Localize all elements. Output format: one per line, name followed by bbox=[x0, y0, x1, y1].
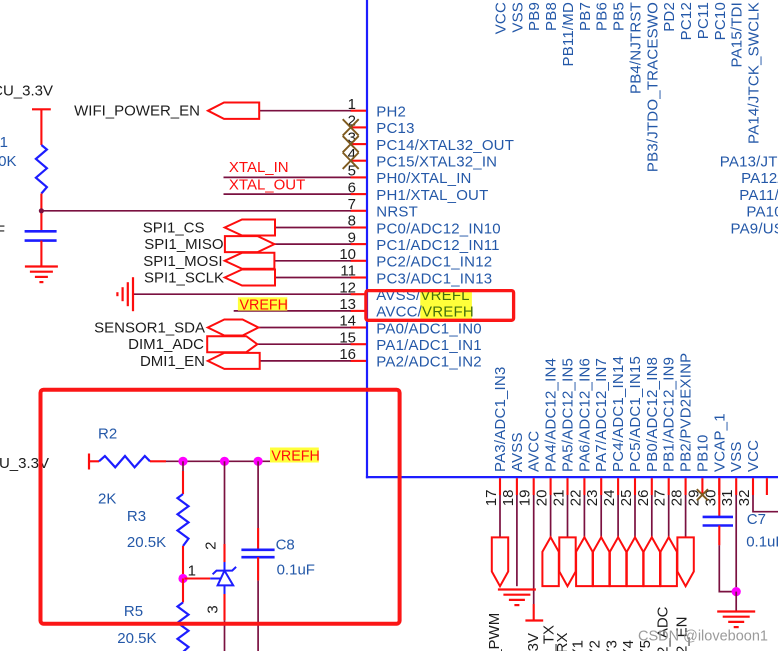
svg-text:R5: R5 bbox=[124, 603, 143, 620]
svg-text:SPI1_CS: SPI1_CS bbox=[143, 220, 205, 237]
svg-text:SPI1_SCLK: SPI1_SCLK bbox=[144, 270, 224, 287]
svg-text:AVCC: AVCC bbox=[526, 431, 543, 472]
svg-text:DMI1_EN: DMI1_EN bbox=[140, 353, 205, 370]
pin 24 stub bbox=[617, 478, 619, 495]
wire dot2 to diode bbox=[224, 461, 226, 544]
wire pin 17 to port bbox=[499, 495, 501, 537]
svg-text:PA1/ADC1_IN1: PA1/ADC1_IN1 bbox=[376, 337, 482, 354]
highlight box reference circuit bbox=[41, 390, 400, 624]
svg-text:AVCC/VREFH: AVCC/VREFH bbox=[376, 304, 474, 321]
lead R5 top bbox=[182, 579, 184, 603]
svg-text:PA12/: PA12/ bbox=[741, 170, 778, 187]
svg-text:23: 23 bbox=[584, 490, 601, 507]
wire SENSOR1_SDA to pin 14 bbox=[259, 327, 351, 329]
svg-text:KEY2: KEY2 bbox=[586, 640, 603, 651]
svg-text:R21: R21 bbox=[0, 134, 8, 151]
svg-text:19: 19 bbox=[517, 490, 534, 507]
pin 22 stub bbox=[583, 478, 585, 495]
svg-text:KEY3: KEY3 bbox=[603, 640, 620, 651]
pin 5 stub bbox=[351, 176, 367, 178]
pin 28 stub bbox=[685, 478, 687, 495]
svg-text:10K: 10K bbox=[0, 153, 17, 170]
svg-text:26: 26 bbox=[635, 490, 652, 507]
svg-text:PA14/JTCK_SWCLK: PA14/JTCK_SWCLK bbox=[746, 2, 763, 144]
wire dot1 to R3 bbox=[182, 461, 184, 471]
wire pin 23 to port bbox=[600, 495, 602, 537]
wire power to R21 bbox=[40, 109, 42, 145]
resistor R2 bbox=[99, 456, 150, 467]
wire SPI1_SCLK to pin 11 bbox=[275, 277, 351, 279]
svg-text:VCC: VCC bbox=[493, 2, 510, 34]
svg-text:2K: 2K bbox=[98, 491, 116, 508]
ground (pin 31 / C7) bbox=[717, 610, 755, 612]
lead C8 top bbox=[257, 528, 259, 550]
svg-text:C7: C7 bbox=[747, 511, 766, 528]
port D_TX (pin 20) bbox=[542, 537, 558, 586]
svg-text:20.5K: 20.5K bbox=[127, 534, 166, 551]
port SPI1_MOSI bbox=[225, 253, 275, 269]
ground (pin 18 AVSS) bbox=[498, 588, 536, 590]
no-connect X pin 29 bbox=[697, 489, 708, 500]
lead diode top (pin 2) bbox=[223, 544, 225, 562]
svg-text:PC4/ADC1_IN14: PC4/ADC1_IN14 bbox=[610, 356, 627, 472]
wire pin 25 to port bbox=[634, 495, 636, 537]
pin 14 stub bbox=[351, 326, 367, 328]
svg-text:PC1/ADC12_IN11: PC1/ADC12_IN11 bbox=[376, 237, 499, 254]
svg-text:PC10: PC10 bbox=[712, 2, 729, 40]
wire VREFH net bbox=[166, 460, 319, 462]
lead R3 bottom bbox=[182, 546, 184, 579]
svg-text:AVSS: AVSS bbox=[509, 432, 526, 472]
wire SPI1_CS to pin 8 bbox=[275, 227, 351, 229]
svg-text:PB2/PVD2EXINP: PB2/PVD2EXINP bbox=[678, 353, 695, 472]
svg-text:DIM1_ADC: DIM1_ADC bbox=[128, 336, 204, 353]
svg-text:PC5/ADC1_IN15: PC5/ADC1_IN15 bbox=[627, 356, 644, 472]
port EN (pin 28) bbox=[677, 537, 693, 586]
svg-text:32: 32 bbox=[736, 490, 753, 507]
no-connect X pin 3 bbox=[343, 136, 359, 152]
wire XTAL_IN to pin 5 bbox=[224, 176, 351, 178]
svg-text:PB5: PB5 bbox=[611, 2, 628, 31]
svg-text:20: 20 bbox=[534, 490, 551, 507]
svg-text:R2: R2 bbox=[98, 426, 117, 443]
wire DIM1_ADC to pin 15 bbox=[257, 343, 351, 345]
svg-text:PB11/MD: PB11/MD bbox=[560, 2, 577, 66]
wire pin 21 to port bbox=[567, 495, 569, 537]
pin 19 stub bbox=[533, 478, 535, 495]
svg-text:PC14/XTAL32_OUT: PC14/XTAL32_OUT bbox=[376, 137, 514, 154]
svg-text:PC11: PC11 bbox=[695, 2, 712, 39]
svg-text:NRST: NRST bbox=[376, 204, 418, 221]
svg-text:PA10: PA10 bbox=[746, 204, 778, 221]
svg-text:SENSOR1_SDA: SENSOR1_SDA bbox=[94, 320, 205, 337]
svg-text:KEY1: KEY1 bbox=[570, 640, 587, 651]
svg-text:XTAL_OUT: XTAL_OUT bbox=[229, 177, 305, 194]
no-connect X pin 4 bbox=[343, 153, 359, 169]
pin 15 stub bbox=[351, 343, 367, 345]
svg-text:0.1uF: 0.1uF bbox=[277, 562, 315, 579]
pin 10 stub bbox=[351, 260, 367, 262]
svg-text:0.1uF: 0.1uF bbox=[746, 534, 778, 551]
ground (AVSS pin 12, rotated) bbox=[132, 277, 134, 311]
svg-text:_PWM: _PWM bbox=[486, 613, 503, 651]
port WIFI_POWER_EN bbox=[208, 103, 259, 119]
wire pin 27 to port bbox=[668, 495, 670, 537]
svg-text:D_RX: D_RX bbox=[554, 633, 571, 651]
wire AVSS to ground bbox=[134, 293, 351, 295]
resistor R21 bbox=[36, 145, 47, 194]
svg-text:PC12: PC12 bbox=[678, 2, 695, 40]
pin 32 stub bbox=[752, 478, 754, 495]
wire R21 to C? / NRST junction bbox=[40, 194, 42, 232]
junction dot (pin31/C7) bbox=[732, 587, 741, 596]
power bar MCU_3.3V (pin 19) bbox=[533, 604, 535, 621]
svg-text:21: 21 bbox=[551, 490, 568, 507]
svg-text:PH2: PH2 bbox=[376, 104, 406, 121]
svg-text:R3: R3 bbox=[127, 508, 146, 525]
svg-text:KEY4: KEY4 bbox=[620, 640, 637, 651]
junction NRST node bbox=[39, 208, 44, 213]
pin 6 stub bbox=[351, 193, 367, 195]
wire SPI1_MOSI to pin 10 bbox=[274, 260, 350, 262]
svg-text:PA6/ADC12_IN6: PA6/ADC12_IN6 bbox=[576, 358, 593, 472]
wire XTAL_OUT to pin 6 bbox=[224, 193, 351, 195]
svg-text:PH1/XTAL_OUT: PH1/XTAL_OUT bbox=[376, 187, 488, 204]
power bar MCU_3.3V (box) bbox=[88, 454, 90, 470]
svg-text:MCU_3.3V: MCU_3.3V bbox=[0, 83, 53, 100]
highlight box AVSS/AVCC bbox=[366, 291, 514, 321]
ground (top-left) bbox=[25, 265, 58, 267]
svg-text:PB7: PB7 bbox=[577, 2, 594, 31]
pin 21 stub bbox=[566, 478, 568, 495]
svg-text:PA15/TDI: PA15/TDI bbox=[729, 2, 746, 68]
pin 13 stub bbox=[351, 310, 367, 312]
wire C7 to junction bbox=[719, 545, 736, 591]
capacitor C? plates bbox=[25, 230, 57, 233]
svg-text:PA2/ADC1_IN2: PA2/ADC1_IN2 bbox=[376, 354, 482, 371]
svg-text:VREFH: VREFH bbox=[271, 448, 319, 464]
wire pin 18 (AVSS) to ground bbox=[516, 495, 518, 586]
no-connect X pin 2 bbox=[343, 119, 359, 135]
port ADC (pin 27) bbox=[661, 537, 677, 586]
pin 23 stub bbox=[600, 478, 602, 495]
svg-text:MCU_3.3V: MCU_3.3V bbox=[525, 633, 542, 651]
wire pin 22 to port bbox=[583, 495, 585, 537]
lead C8 bottom bbox=[257, 557, 259, 580]
svg-text:0.1uF: 0.1uF bbox=[0, 223, 5, 240]
svg-text:PH0/XTAL_IN: PH0/XTAL_IN bbox=[376, 170, 471, 187]
lead diode bottom (pin 3) bbox=[223, 594, 225, 620]
pin 31 stub bbox=[735, 478, 737, 495]
svg-text:18: 18 bbox=[500, 490, 517, 507]
svg-text:20.5K: 20.5K bbox=[117, 630, 156, 647]
svg-text:PA3/ADC1_IN3: PA3/ADC1_IN3 bbox=[492, 366, 509, 472]
svg-text:CSDN @iloveboon1: CSDN @iloveboon1 bbox=[638, 629, 768, 645]
pin 29 stub bbox=[701, 478, 703, 495]
svg-text:PA4/ADC12_IN4: PA4/ADC12_IN4 bbox=[543, 358, 560, 472]
port KEY2 (pin 23) bbox=[593, 537, 609, 586]
port DIM1_ADC bbox=[207, 336, 257, 352]
svg-text:PB4/NJTRST: PB4/NJTRST bbox=[628, 2, 645, 94]
lead power to R2 bbox=[89, 460, 99, 462]
net label VREFH (box) bbox=[270, 448, 319, 463]
svg-text:PA13/JT: PA13/JT bbox=[720, 154, 778, 171]
wire C? to ground bbox=[40, 241, 42, 266]
wire pin 24 to port bbox=[617, 495, 619, 537]
svg-text:C8: C8 bbox=[276, 537, 295, 554]
pin 27 stub bbox=[668, 478, 670, 495]
port DMI1_EN bbox=[208, 353, 260, 369]
svg-text:VREFH: VREFH bbox=[240, 297, 288, 313]
lead diode ref bbox=[185, 577, 211, 579]
pin 3 stub bbox=[351, 143, 367, 145]
svg-text:24: 24 bbox=[601, 490, 618, 507]
svg-text:31: 31 bbox=[719, 490, 736, 507]
resistor R3 bbox=[178, 494, 189, 546]
pin 26 stub bbox=[651, 478, 653, 495]
svg-text:PA11/: PA11/ bbox=[739, 187, 778, 204]
pin 20 stub bbox=[550, 478, 552, 495]
pin 1 stub bbox=[351, 110, 367, 112]
svg-text:PD2: PD2 bbox=[661, 2, 678, 32]
wire WIFI_POWER_EN to pin 1 bbox=[259, 110, 351, 112]
wire pin 30 to C7 bbox=[718, 478, 720, 517]
port SENSOR1_SDA bbox=[208, 320, 259, 336]
port D_RX (pin 21) bbox=[559, 537, 575, 586]
capacitor C7 bbox=[703, 516, 733, 519]
svg-text:VSS: VSS bbox=[728, 441, 745, 472]
port KEY5 (pin 26) bbox=[644, 537, 660, 586]
port KEY1 (pin 22) bbox=[576, 537, 593, 586]
lead R3 top bbox=[182, 471, 184, 494]
pin 30 stub bbox=[718, 478, 720, 495]
port SPI1_SCLK bbox=[225, 270, 275, 286]
svg-text:PB3/JTDO_TRACESWO: PB3/JTDO_TRACESWO bbox=[644, 2, 661, 172]
junction dot 2 bbox=[220, 457, 229, 466]
pin 11 stub bbox=[351, 276, 367, 278]
yellow highlight VREFL/VREFH bbox=[420, 291, 472, 319]
svg-text:1: 1 bbox=[188, 563, 196, 580]
wire NRST to pin 7 bbox=[41, 210, 350, 212]
wire pin 26 to port bbox=[651, 495, 653, 537]
junction dot 3 bbox=[254, 457, 263, 466]
pin 33 stub bbox=[766, 478, 768, 495]
wire C8 down bbox=[257, 581, 259, 651]
svg-text:XTAL_IN: XTAL_IN bbox=[229, 159, 289, 176]
svg-text:PA5/ADC12_IN5: PA5/ADC12_IN5 bbox=[560, 358, 577, 472]
port KEY3 (pin 24) bbox=[610, 537, 626, 586]
svg-text:27: 27 bbox=[652, 490, 669, 507]
svg-text:3: 3 bbox=[204, 605, 221, 613]
resistor R5 bbox=[178, 602, 189, 651]
wire pin 32 elbow right bbox=[753, 495, 778, 512]
junction dot 1 bbox=[178, 457, 187, 466]
capacitor C8 bbox=[241, 548, 274, 551]
pin 12 stub bbox=[351, 293, 367, 295]
pin 2 stub bbox=[351, 126, 367, 128]
svg-text:VCC: VCC bbox=[745, 440, 762, 472]
wire pin 19 (AVCC) to power bbox=[533, 495, 535, 604]
svg-text:2: 2 bbox=[202, 542, 219, 550]
svg-text:PC15/XTAL32_IN: PC15/XTAL32_IN bbox=[376, 154, 497, 171]
wire DMI1_EN to pin 16 bbox=[260, 360, 351, 362]
net label VREFH (pin 13) bbox=[238, 297, 287, 310]
port PWM (pin 17) bbox=[492, 537, 508, 586]
svg-text:VCAP_1: VCAP_1 bbox=[711, 413, 728, 472]
wire junction to ground bbox=[735, 592, 737, 611]
power bar MCU_3.3V bbox=[32, 108, 51, 110]
pin 7 stub bbox=[351, 210, 367, 212]
pin 8 stub bbox=[351, 226, 367, 228]
port KEY4 (pin 25) bbox=[627, 537, 643, 586]
svg-text:PB10: PB10 bbox=[694, 435, 711, 473]
diode D? (shunt reference) bbox=[210, 562, 236, 594]
junction dot diode ref bbox=[178, 574, 187, 583]
pin 25 stub bbox=[634, 478, 636, 495]
port SPI1_MISO bbox=[225, 236, 275, 252]
svg-text:PA9/US: PA9/US bbox=[731, 220, 778, 237]
svg-text:PA7/ADC12_IN7: PA7/ADC12_IN7 bbox=[593, 358, 610, 472]
svg-text:28: 28 bbox=[669, 490, 686, 507]
lead R2 right bbox=[150, 460, 166, 462]
svg-text:PC13: PC13 bbox=[376, 120, 414, 137]
svg-text:PB1/ADC12_IN9: PB1/ADC12_IN9 bbox=[661, 357, 678, 472]
svg-text:25: 25 bbox=[618, 490, 635, 507]
svg-text:WIFI_POWER_EN: WIFI_POWER_EN bbox=[74, 103, 200, 120]
svg-text:PC3/ADC1_IN13: PC3/ADC1_IN13 bbox=[376, 270, 492, 287]
MCU U? left border bbox=[366, 0, 368, 478]
svg-text:PB9: PB9 bbox=[526, 2, 543, 31]
pin 16 stub bbox=[351, 360, 367, 362]
wire pin 28 to port bbox=[685, 495, 687, 537]
svg-text:SPI1_MISO: SPI1_MISO bbox=[144, 236, 223, 253]
MCU U? bottom border bbox=[366, 476, 778, 478]
svg-text:PC2/ADC1_IN12: PC2/ADC1_IN12 bbox=[376, 254, 492, 271]
svg-text:SPI1_MOSI: SPI1_MOSI bbox=[143, 253, 222, 270]
svg-text:PB8: PB8 bbox=[543, 2, 560, 31]
pin 9 stub bbox=[351, 243, 367, 245]
svg-text:PB6: PB6 bbox=[594, 2, 611, 31]
svg-text:17: 17 bbox=[483, 490, 500, 507]
svg-text:PA0/ADC1_IN0: PA0/ADC1_IN0 bbox=[376, 320, 482, 337]
wire pin 31 to junction bbox=[735, 495, 737, 592]
svg-text:PC0/ADC12_IN10: PC0/ADC12_IN10 bbox=[376, 220, 501, 237]
pin 18 stub bbox=[516, 478, 518, 495]
svg-text:22: 22 bbox=[567, 490, 584, 507]
pin 17 stub bbox=[499, 478, 501, 495]
wire dot3 to C8 bbox=[257, 461, 259, 528]
wire SPI1_MISO to pin 9 bbox=[274, 243, 350, 245]
svg-text:PB0/ADC12_IN8: PB0/ADC12_IN8 bbox=[644, 357, 661, 472]
svg-text:VSS: VSS bbox=[509, 2, 526, 33]
wire diode pin 3 down bbox=[224, 620, 226, 651]
wire pin 20 to port bbox=[550, 495, 552, 537]
port SPI1_CS bbox=[225, 220, 275, 236]
pin 4 stub bbox=[351, 160, 367, 162]
lead C7 bottom bbox=[718, 526, 720, 546]
wire VREFH to pin 13 bbox=[234, 310, 351, 312]
